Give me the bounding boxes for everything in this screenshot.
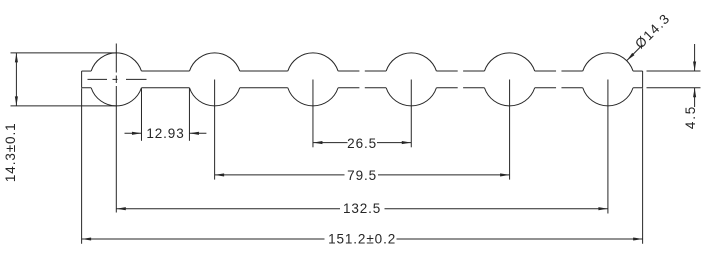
bar top edge between circle 5 and 6	[535, 70, 583, 72]
dim 132.5 dimension line	[116, 208, 608, 210]
arrow dim 12.93 left	[132, 132, 142, 135]
dim 14.3 dimension line	[15, 53, 17, 106]
arrow dim 14.3 bottom	[15, 96, 18, 106]
bar top edge between circle 2 and 3	[240, 70, 288, 72]
arrow leader diameter	[627, 53, 635, 61]
circle 4 center extension line	[410, 80, 412, 148]
bar bottom edge between circle 1 and 2	[141, 87, 189, 89]
arrow dim 14.3 top	[15, 53, 18, 63]
circle 1 bottom arc	[91, 88, 141, 106]
circle 2 bottom arc	[189, 88, 239, 106]
strip right stub bottom edge	[633, 87, 643, 89]
circle 6 bottom arc	[583, 88, 633, 106]
arrow dim 12.93 right	[189, 132, 199, 135]
dim 4.5 bottom arrow tail	[694, 88, 696, 107]
bar bottom edge between circle 2 and 3	[240, 87, 288, 89]
arrow dim 26.5 left	[313, 141, 323, 144]
circle 6 center extension line	[607, 80, 609, 214]
svg-text:14.3±0.1: 14.3±0.1	[3, 122, 18, 182]
arrow dim 132.5 left	[116, 207, 126, 210]
dim 12.93 left arrow tail	[125, 132, 142, 134]
strip right end cap	[642, 71, 644, 88]
dim 79.5 dimension line	[215, 174, 510, 176]
arrow dim 151.2 left	[82, 237, 92, 240]
arrow dim 79.5 left	[215, 173, 225, 176]
arrow dim 79.5 right	[500, 173, 510, 176]
svg-text:26.5: 26.5	[347, 136, 377, 151]
svg-text:79.5: 79.5	[347, 168, 377, 183]
svg-text:132.5: 132.5	[343, 201, 381, 216]
bar bottom edge between circle 4 and 5	[436, 87, 484, 89]
circle 3 top arc	[288, 53, 338, 71]
dim 151.2 right extension line	[642, 88, 644, 244]
circle 4 top arc	[386, 53, 436, 71]
arrow dim 4.5 bottom	[693, 88, 696, 98]
circle 2 center extension line	[214, 80, 216, 180]
bar bottom edge between circle 3 and 4	[338, 87, 386, 89]
circle 5 bottom arc	[484, 88, 534, 106]
dim 14.3 bottom extension line	[11, 105, 118, 107]
dim 4.5 top arrow tail	[694, 44, 696, 71]
circle 3 bottom arc	[288, 88, 338, 106]
dim 151.2 dimension line	[82, 238, 643, 240]
circle 6 top arc	[583, 53, 633, 71]
dim 12.93 left extension line	[140, 88, 142, 141]
circle 1 horizontal center line	[88, 78, 147, 80]
dim 151.2 left extension line	[81, 88, 83, 244]
strip left stub bottom edge	[82, 87, 92, 89]
circle 1 vertical center line	[115, 44, 117, 213]
dim 14.3 top extension line	[11, 52, 118, 54]
leader line for diameter 14.3	[627, 45, 643, 61]
dim 26.5 dimension line	[313, 142, 411, 144]
dim 4.5 bottom extension line	[647, 87, 701, 89]
dim 12.93 right extension line	[188, 88, 190, 141]
bar top edge between circle 1 and 2	[141, 70, 189, 72]
arrow dim 26.5 right	[402, 141, 412, 144]
arrow dim 132.5 right	[598, 207, 608, 210]
circle 5 center extension line	[509, 80, 511, 180]
svg-text:151.2±0.2: 151.2±0.2	[328, 231, 396, 246]
circle 5 top arc	[484, 53, 534, 71]
dim 12.93 right arrow tail	[189, 132, 206, 134]
circle 4 bottom arc	[386, 88, 436, 106]
dim 4.5 top extension line	[647, 70, 701, 72]
circle 2 top arc	[189, 53, 239, 71]
circle 1 top arc	[91, 53, 141, 71]
arrow dim 151.2 right	[633, 237, 643, 240]
strip right stub top edge	[633, 70, 643, 72]
bar bottom edge between circle 5 and 6	[535, 87, 583, 89]
arrow dim 4.5 top	[693, 62, 696, 72]
bar top edge between circle 4 and 5	[436, 70, 484, 72]
circle 3 center extension line	[312, 80, 314, 148]
strip left stub top edge	[82, 70, 92, 72]
svg-text:12.93: 12.93	[146, 126, 184, 141]
strip left end cap	[81, 71, 83, 88]
svg-text:4.5: 4.5	[683, 105, 698, 129]
bar top edge between circle 3 and 4	[338, 70, 386, 72]
